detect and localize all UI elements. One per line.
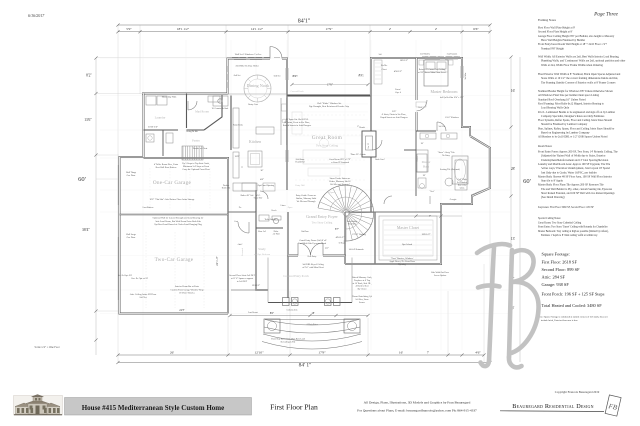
svg-text:18'1 1/2": 18'1 1/2" [177, 27, 190, 31]
svg-text:Wall Large: Wall Large [126, 233, 136, 236]
svg-text:Beauregard Residential Design: Beauregard Residential Design [512, 403, 593, 410]
svg-text:Attic Load Room, But With Room: Attic Load Room, But With Room Extra Bot… [155, 220, 201, 223]
svg-text:By Closet: By Closet [358, 289, 367, 291]
svg-text:Minimum 3-4' Steps at Front: Minimum 3-4' Steps at Front [183, 166, 209, 168]
svg-text:Plumbing Walls, and 'Continuou: Plumbing Walls, and 'Continuous' Walls a… [541, 60, 625, 63]
svg-text:Open: Open [288, 207, 293, 209]
svg-text:Front Step Raised Tile Plan Ra: Front Step Raised Tile Plan Rain Land [271, 339, 306, 341]
svg-text:Covered Entry Porch: Covered Entry Porch [283, 274, 309, 278]
svg-text:4'6": 4'6" [260, 178, 264, 181]
svg-text:Scale 1/4" = One Foot: Scale 1/4" = One Foot [35, 346, 60, 349]
svg-text:For Questions about Plans, E-m: For Questions about Plans, E-mail: beaur… [357, 409, 477, 414]
svg-text:13'6 1/2": 13'6 1/2" [421, 233, 430, 236]
svg-text:Laundry and Mud Room Area: App: Laundry and Mud Room Area: Approx 100 SF… [538, 163, 611, 166]
svg-text:Book Case?: Book Case? [375, 159, 385, 161]
svg-text:Second Floor: 899 SF: Second Floor: 899 SF [542, 267, 581, 272]
svg-text:Custom Front Garage Window Wra: Custom Front Garage Window Wrap [170, 288, 204, 291]
svg-text:and Opt. Bedroom: and Opt. Bedroom [254, 254, 271, 256]
svg-text:Up 5 Steps to Top Stair Grade,: Up 5 Steps to Top Stair Grade, [182, 163, 210, 165]
svg-text:Open: Open [329, 191, 335, 194]
svg-text:Master Bedroom: Tray ceiling a: Master Bedroom: Tray ceiling at high as … [538, 230, 609, 233]
svg-text:Lower Option: Lower Option [434, 275, 447, 277]
svg-text:Powder or Chest: Powder or Chest [193, 148, 208, 150]
svg-text:to 3x8 DLT: to 3x8 DLT [237, 281, 248, 283]
svg-text:Should be Finalized by Lumber: Should be Finalized by Lumber Company [541, 123, 588, 126]
svg-text:6x6 Set: 6x6 Set [274, 76, 281, 78]
svg-text:38'4": 38'4" [82, 228, 90, 232]
svg-text:Swing Dr Inlt: Swing Dr Inlt [186, 130, 198, 133]
svg-text:Roof Framing: Most Rafts 6x12: Roof Framing: Most Rafts 6x12 Hipped, In… [538, 102, 605, 105]
svg-text:Company Specialist, Designer's: Company Specialist, Designer's Rates are… [541, 115, 604, 118]
svg-text:Set Window: Set Window [457, 182, 468, 184]
svg-text:Apple Boxes, No Germ Born: Apple Boxes, No Germ Born [389, 260, 415, 263]
svg-text:Stair Railing: Stair Railing [347, 220, 357, 223]
svg-text:2': 2' [435, 27, 438, 31]
svg-text:Walls at 2x4, Width Floor Fram: Walls at 2x4, Width Floor Frame Widths w… [541, 64, 603, 67]
svg-text:First Floor Plan: First Floor Plan [270, 403, 318, 412]
svg-text:We Met and Through: We Met and Through [297, 200, 317, 203]
svg-text:Covered: Covered [241, 247, 244, 256]
svg-text:15'6": 15'6" [392, 111, 397, 113]
svg-text:Raised 12' Crown Top Ceiling: Raised 12' Crown Top Ceiling [419, 68, 446, 71]
svg-text:84'1": 84'1" [298, 19, 311, 25]
svg-text:2x8 Net: 2x8 Net [139, 297, 147, 299]
svg-text:Desk: Desk [418, 107, 422, 109]
svg-text:17'9": 17'9" [318, 350, 326, 354]
svg-text:Study: Study [258, 247, 266, 251]
svg-text:Opening: Opening [398, 263, 406, 266]
svg-text:6'x6" High: 6'x6" High [457, 178, 467, 181]
svg-text:Total Heated and Cooled: 3480: Total Heated and Cooled: 3480 SF [542, 303, 603, 308]
svg-text:Wall Set 3 Windows 7 at 3ea: Wall Set 3 Windows 7 at 3ea [235, 54, 261, 56]
svg-text:(Adjusted the 'Raised Wall of: (Adjusted the 'Raised Wall of Width due … [541, 155, 606, 158]
svg-text:3x6 Vdr.: 3x6 Vdr. [439, 126, 446, 128]
svg-text:Nominal 9'8" Height: Nominal 9'8" Height [541, 47, 564, 50]
svg-text:Room Notes:: Room Notes: [538, 145, 553, 148]
svg-text:Hearth Pad: Hearth Pad [296, 162, 305, 164]
svg-text:18' Span Cut 16x18 LVL: 18' Span Cut 16x18 LVL [286, 119, 310, 121]
svg-text:16'6" "Flat Slat" Attic Rafter: 16'6" "Flat Slat" Attic Rafters Floor Jo… [149, 198, 194, 201]
svg-text:Gas FP: Gas FP [368, 142, 370, 149]
svg-text:Hutch Opt: Hutch Opt [222, 188, 231, 190]
svg-text:5'9": 5'9" [126, 27, 132, 31]
svg-text:24'3": 24'3" [179, 309, 184, 312]
svg-text:Floor Systems, Rafter Spans, F: Floor Systems, Rafter Spans, Floor and C… [538, 119, 612, 122]
svg-text:Gas Door: Gas Door [127, 175, 136, 177]
svg-text:Master Day Walk: Master Day Walk [162, 97, 178, 99]
svg-text:60': 60' [78, 176, 86, 183]
svg-text:6'6": 6'6" [473, 27, 479, 31]
svg-text:Toilet 3x6 Jlt: Toilet 3x6 Jlt [265, 219, 276, 221]
svg-text:84' 1": 84' 1" [299, 363, 312, 369]
svg-text:Cup. 4: Cup. 4 [395, 92, 401, 94]
svg-text:Grand Entry Doors (2x6) 8' x8': Grand Entry Doors (2x6) 8' x8' [299, 239, 327, 242]
svg-text:Last Rafters: Last Rafters [143, 206, 154, 209]
svg-text:2x4 Transom: 2x4 Transom [447, 54, 458, 56]
svg-text:Raised Masonry Curb,: Raised Masonry Curb, [352, 277, 372, 279]
svg-text:Better, Masonry Shelf?: Better, Masonry Shelf? [329, 180, 350, 183]
svg-text:4 Chair Rates: 4 Chair Rates [306, 324, 318, 326]
svg-text:at 12' 6" Spans w support: at 12' 6" Spans w support [231, 278, 254, 280]
svg-text:Two Story Ceiling: Two Story Ceiling [312, 222, 333, 225]
svg-text:Garage Floor Ceiling Height 9': Garage Floor Ceiling Height 9'6" per Bui… [538, 35, 615, 38]
svg-text:9'7": 9'7" [325, 247, 329, 250]
svg-text:Garage: 938 SF: Garage: 938 SF [542, 282, 570, 287]
svg-text:16x8 Stone: 16x8 Stone [295, 159, 304, 161]
svg-text:6x6 Set: 6x6 Set [234, 75, 241, 77]
svg-text:Attic Ceiling Joists 4'H Floo: Attic Ceiling Joists 4'H Floor [130, 293, 157, 296]
svg-text:First Floor: 2618 SF: First Floor: 2618 SF [542, 260, 578, 265]
svg-text:12'10": 12'10" [254, 350, 264, 354]
svg-text:Nominal Header Height for Wind: Nominal Header Height for Windows 6'8" U… [538, 90, 614, 93]
svg-text:Load Bearing Walls Only: Load Bearing Walls Only [541, 107, 570, 110]
svg-text:Covered Porch: Covered Porch [290, 91, 304, 93]
svg-text:Underlayment/Reinforcement and: Underlayment/Reinforcement and 13' Joist… [541, 159, 609, 162]
svg-text:16' Door Trim Lt.: 16' Door Trim Lt. [179, 293, 195, 295]
svg-text:Second Floor Plate Height at 8: Second Floor Plate Height at 8' [538, 31, 573, 34]
svg-text:Standard Roof Overhang 16" Unl: Standard Roof Overhang 16" Unless Noted [538, 98, 586, 101]
svg-text:19'1/2" Rotting: 19'1/2" Rotting [352, 233, 366, 236]
svg-text:Side Walk Out Door: Side Walk Out Door [431, 272, 449, 274]
svg-text:Entry Guide: Doors are: Entry Guide: Doors are [296, 195, 317, 197]
svg-text:Hearth: Hearth [359, 127, 364, 129]
svg-text:Grand Entry Foyer: Grand Entry Foyer [306, 214, 338, 219]
svg-text:28': 28' [511, 167, 516, 171]
svg-text:4'10 1/2": 4'10 1/2" [336, 236, 345, 239]
svg-text:Wood Iron: Wood Iron [348, 224, 357, 226]
svg-text:3x8: 3x8 [379, 54, 382, 56]
svg-text:8'6": 8'6" [270, 312, 274, 315]
svg-text:Master Bath: Floor Plans Tile: Master Bath: Floor Plans Tile Approx 200… [538, 184, 604, 187]
svg-text:Roped Inserts on Joist Hangers: Roped Inserts on Joist Hangers [380, 116, 407, 119]
svg-text:Seating Tile (External): Seating Tile (External) [440, 168, 460, 171]
svg-text:Source: Source [359, 302, 365, 304]
svg-text:Column Join: Column Join [287, 310, 298, 312]
svg-text:House #415 Mediterranean Style: House #415 Mediterranean Style Custom Ho… [82, 404, 225, 412]
svg-text:Opt Cased Opening: Opt Cased Opening [258, 184, 274, 187]
svg-text:14'1 1/2": 14'1 1/2" [251, 27, 264, 31]
svg-text:Copyright Francois Beauregard: Copyright Francois Beauregard 2019 [555, 390, 600, 394]
svg-text:60': 60' [523, 178, 531, 185]
svg-text:Go. Jb. Opt. 4' H: Go. Jb. Opt. 4' H [118, 275, 133, 277]
svg-text:Linen/: Linen/ [395, 89, 401, 91]
svg-text:7': 7' [427, 350, 430, 354]
svg-text:Georgia: Georgia [450, 198, 457, 201]
svg-text:Have Wall Heights Finalized by: Have Wall Heights Finalized by Builder [541, 39, 585, 42]
svg-text:14'x14' Rotunda: 14'x14' Rotunda [349, 249, 364, 251]
svg-text:Special Ceiling Notes:: Special Ceiling Notes: [538, 217, 561, 220]
svg-text:Art Wall: Art Wall [273, 233, 280, 236]
svg-text:4' Joists, Prints in Six Place: 4' Joists, Prints in Six Place, [382, 114, 407, 116]
svg-text:Desk or: Desk or [223, 185, 230, 187]
svg-text:Bench: Bench [271, 210, 276, 212]
svg-text:12x8 “Slider” Window Set: 12x8 “Slider” Window Set [317, 102, 342, 105]
svg-text:13': 13' [511, 237, 516, 241]
svg-text:The Framing Outside Corners of: The Framing Outside Corners of Exterior … [541, 81, 615, 84]
svg-text:All Headers to be 2x10 DBL w 1: All Headers to be 2x10 DBL w 1/2" OSB Sp… [538, 136, 608, 139]
svg-text:Bath: Bath [423, 165, 429, 169]
svg-text:w Stone FP Surround: w Stone FP Surround [331, 162, 350, 164]
svg-text:Master: Master [422, 160, 432, 164]
svg-text:Master Closet: Master Closet [397, 225, 420, 230]
svg-text:First Floor Wall Plate Height: First Floor Wall Plate Height at 9' [538, 27, 576, 30]
svg-text:Interior Beam Bar at Posts: Interior Beam Bar at Posts [175, 286, 199, 288]
svg-text:His/Her: His/Her [381, 65, 388, 67]
svg-text:13'6": 13'6" [84, 118, 92, 122]
svg-text:Great Room 19'8" x 17'9": Great Room 19'8" x 17'9" [329, 159, 351, 161]
svg-text:"Vert": "Vert" [429, 191, 434, 193]
svg-text:Best Wall Roof Rafters: Best Wall Roof Rafters [156, 166, 177, 169]
svg-text:Wall Thugs: Wall Thugs [126, 171, 136, 174]
svg-text:Master Bath: Shower 48 SF Floo: Master Bath: Shower 48 SF Floor Area, 10… [538, 175, 612, 178]
svg-text:w/ Multi Side Eyesores Wood: w/ Multi Side Eyesores Wood [300, 243, 327, 245]
svg-text:We Met and Storage?: We Met and Storage? [330, 183, 350, 186]
svg-text:Attic?: Attic? [238, 243, 243, 246]
svg-text:Gas. Jb. Opt. at 18': Gas. Jb. Opt. at 18' [131, 278, 149, 280]
svg-text:Wall Width: All Exterior Walls: Wall Width: All Exterior Walls are 2x6, … [538, 56, 619, 59]
svg-text:Short Raised External, and 100: Short Raised External, and 100 SF Wall w… [541, 192, 615, 195]
svg-text:Optional Wall for Lateral Stre: Optional Wall for Lateral Strength and L… [153, 217, 204, 220]
svg-text:One-Car Garage: One-Car Garage [153, 180, 192, 186]
svg-text:"Fans" Barriers, Window/: "Fans" Barriers, Window/ [391, 258, 414, 260]
svg-text:Front Entry/Great Room Wall He: Front Entry/Great Room Wall Height at 18… [538, 43, 607, 46]
svg-text:Three PC Austin: Three PC Austin [350, 153, 366, 156]
svg-text:16': 16' [399, 350, 404, 354]
svg-text:Butler 4'6" 2x4: Butler 4'6" 2x4 [241, 195, 254, 197]
svg-text:13'10 1/2": 13'10 1/2" [148, 126, 158, 129]
svg-text:3x5 Window: 3x5 Window [420, 54, 431, 56]
svg-text:Pantry: Pantry [192, 139, 200, 143]
svg-text:9': 9' [241, 167, 243, 169]
svg-text:No Entry: No Entry [442, 155, 451, 157]
svg-text:Note: Square Footage is calcul: Note: Square Footage is calculated at ou… [538, 316, 608, 319]
svg-text:Opt. Island: Opt. Island [402, 244, 413, 246]
svg-text:Rail/Iron: Rail/Iron [301, 231, 308, 233]
svg-text:Attic: 284 SF: Attic: 284 SF [542, 275, 566, 280]
svg-text:4'6": 4'6" [475, 350, 481, 354]
svg-text:Estimate 1' depth to 8' 'mini: Estimate 1' depth to 8' 'mini ceiling' s… [541, 234, 598, 237]
svg-text:Pine, Splines, Rafter, Spans,: Pine, Splines, Rafter, Spans, Floor and … [538, 127, 615, 130]
svg-text:8'2": 8'2" [86, 74, 92, 78]
svg-text:Shwr 3x3: Shwr 3x3 [258, 231, 266, 233]
svg-text:4' Taller Room Here, Extra: 4' Taller Room Here, Extra [154, 164, 178, 166]
svg-text:Step tile to 8' Apply: Step tile to 8' Apply [541, 180, 564, 183]
svg-text:Glass: Glass [460, 187, 465, 189]
svg-text:Niche: Niche [274, 231, 279, 233]
svg-text:Tile and Wall Behind to Ply, o: Tile and Wall Behind to Ply, other, cust… [541, 188, 612, 191]
svg-text:16' Joists, Perot in Six Place: 16' Joists, Perot in Six Place, [284, 122, 311, 124]
svg-text:Great Room: Great Room [312, 135, 343, 141]
svg-text:Bay Extry: Bay Extry [458, 185, 467, 187]
svg-text:8'7": 8'7" [335, 228, 339, 231]
svg-text:17'9": 17'9" [325, 27, 333, 31]
svg-text:(See Detail Drawing): (See Detail Drawing) [541, 196, 565, 199]
svg-text:36": 36" [260, 170, 263, 172]
svg-text:include brick, Exterior floor: include brick, Exterior floor area is he… [541, 319, 578, 322]
svg-text:Final Exterior Wall Width at 8: Final Exterior Wall Width at 8" Nominal,… [538, 73, 621, 76]
svg-text:16': 16' [511, 89, 516, 93]
svg-text:Kitchen: Kitchen [249, 140, 261, 144]
svg-text:18': 18' [311, 312, 315, 315]
svg-text:Dn: Dn [239, 207, 241, 209]
svg-text:15'6": 15'6" [235, 155, 240, 158]
svg-text:Stone Walls at 10 1/2" the cor: Stone Walls at 10 1/2" the correct frami… [541, 77, 618, 80]
svg-text:7': 7' [429, 215, 431, 218]
svg-text:Laundry: Laundry [155, 116, 166, 120]
svg-text:W Counter & Sink: W Counter & Sink [212, 108, 229, 110]
svg-text:2': 2' [389, 27, 392, 31]
svg-text:R.U.L. Laminated Beams to be e: R.U.L. Laminated Beams to be engineered … [538, 111, 615, 114]
svg-text:Keystones: First Floor 3660 SF: Keystones: First Floor 3660 SF, Second F… [538, 206, 594, 209]
svg-text:Stone Under Stairs are: Stone Under Stairs are [330, 178, 351, 180]
svg-text:All Design, Plans, Illustratio: All Design, Plans, Illustrations, 3D Mod… [364, 401, 471, 406]
svg-text:Open Shlv: Open Shlv [254, 198, 263, 200]
svg-text:Front Entry: Two Story 'Turret: Front Entry: Two Story 'Turret' Ceiling … [538, 226, 608, 229]
svg-text:at 10' Back, Side HL,: at 10' Back, Side HL, [353, 283, 372, 285]
svg-text:Rafter: Rafter [416, 156, 419, 161]
svg-text:Master Bedroom: Master Bedroom [431, 89, 459, 94]
svg-text:Dining Nook: Dining Nook [247, 83, 270, 88]
svg-text:Egr. Brought, Best Reinforced: Egr. Brought, Best Reinforced Render Gri… [309, 105, 350, 108]
svg-text:Raised Cab.: Raised Cab. [233, 125, 244, 127]
svg-text:Framing Notes: Framing Notes [538, 18, 557, 22]
svg-text:4' Back is Best: 4' Back is Best [356, 286, 369, 288]
svg-text:3x6 DBL Six Pane Slider: 3x6 DBL Six Pane Slider [235, 66, 259, 68]
svg-text:Page Three: Page Three [593, 12, 619, 18]
svg-text:Based on Engineering by Lumber: Based on Engineering by Lumber Company [541, 132, 590, 135]
svg-text:Fireplace at 4' Top: Fireplace at 4' Top [354, 280, 371, 282]
svg-text:3x8 DBL Keyed Ceiling: 3x8 DBL Keyed Ceiling [302, 263, 324, 266]
svg-text:Gas Door: Gas Door [127, 237, 136, 239]
svg-text:Coat: Coat [234, 221, 238, 223]
svg-text:W.I.C.: W.I.C. [255, 195, 261, 197]
svg-text:Just Only due to Grade, Water: Just Only due to Grade, Water 16/PSC, pe… [541, 171, 597, 174]
svg-text:6 Steps: 6 Steps [339, 243, 346, 245]
svg-text:at 9'-0" with Metal Roof: at 9'-0" with Metal Roof [302, 266, 324, 269]
svg-text:16'6 1/2": 16'6 1/2" [400, 60, 408, 62]
svg-text:Pantry Cont: Pantry Cont [248, 104, 258, 106]
svg-text:Two Story Ceiling: Two Story Ceiling [316, 144, 339, 148]
svg-text:26': 26' [170, 350, 175, 354]
svg-text:15': 15' [421, 142, 425, 145]
svg-text:4x6 Qn Bed Rm 16'4" x 13'2": 4x6 Qn Bed Rm 16'4" x 13'2" [440, 97, 464, 99]
svg-text:Two-Car Garage: Two-Car Garage [155, 257, 194, 263]
svg-text:Raised Inserts in Joist Hanger: Raised Inserts in Joist Hangers [283, 124, 311, 127]
svg-text:6'-16" Windows: 6'-16" Windows [445, 117, 459, 119]
svg-text:Carry the Optional Front Door: Carry the Optional Front Door [182, 169, 210, 171]
svg-text:Square Footage:: Square Footage: [542, 252, 570, 257]
svg-text:Revealing is Tile: Revealing is Tile [281, 341, 296, 344]
svg-text:Flannel Interlining Cyl: Flannel Interlining Cyl [352, 295, 372, 298]
svg-text:Opt Roof Load Braced of Girder: Opt Roof Load Braced of Girder Load Hang… [154, 223, 202, 226]
svg-text:3x3 Box, Stone: 3x3 Box, Stone [355, 299, 369, 301]
svg-text:24'1 1/2": 24'1 1/2" [216, 256, 219, 265]
svg-text:Second Floor Joists 2x8 DLT: Second Floor Joists 2x8 DLT [229, 275, 255, 277]
svg-text:Entry Hall: Entry Hall [295, 185, 305, 187]
svg-text:"Stone" Alcrtg "Tub: "Stone" Alcrtg "Tub [438, 151, 455, 154]
svg-text:3x4 Win.: 3x4 Win. [465, 72, 467, 80]
svg-text:Last Resort: Last Resort [248, 312, 258, 314]
svg-text:'writes ways,' Elevation Under: 'writes ways,' Elevation Underlayment, J… [541, 167, 610, 170]
svg-text:Front Porch: 196 SF + 125 SF S: Front Porch: 196 SF + 125 SF Steps [542, 292, 605, 297]
svg-text:Front Entry Foyer: Approx 200: Front Entry Foyer: Approx 200 SF, Two St… [538, 151, 618, 154]
svg-text:8'2": 8'2" [359, 73, 365, 77]
svg-text:13': 13' [423, 174, 427, 177]
svg-text:4'10 1/2": 4'10 1/2" [394, 71, 402, 73]
svg-text:at 9'6" Above Main Floor Level: at 9'6" Above Main Floor Level [418, 71, 446, 74]
svg-text:Rear Entry: Rear Entry [308, 256, 317, 258]
svg-text:All Windows Final Size per bui: All Windows Final Size per builder/clien… [538, 94, 600, 97]
svg-text:Outline, Masonry Stdrf: Outline, Masonry Stdrf [296, 197, 317, 200]
svg-text:6/16/2017: 6/16/2017 [28, 13, 45, 18]
svg-text:Great Room: Two Story Cathedra: Great Room: Two Story Cathedral Ceiling [538, 221, 582, 224]
svg-text:Linen: Linen [281, 205, 286, 207]
svg-text:Mud Room: Mud Room [195, 110, 209, 114]
